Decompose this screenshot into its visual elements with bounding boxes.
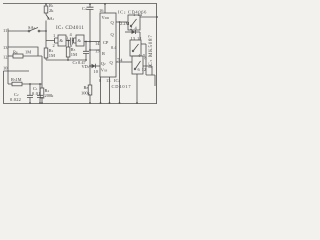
svg-text:11: 11 [3, 28, 7, 33]
svg-text:12: 12 [137, 36, 141, 41]
wire gate1 output [66, 40, 70, 42]
svg-text:2: 2 [53, 43, 55, 48]
resistor R3 1M [66, 47, 77, 61]
NAND gate IC1b [76, 35, 84, 46]
svg-text:C4: C4 [82, 6, 87, 11]
svg-text:SA2: SA2 [28, 25, 36, 30]
svg-text:VSS: VSS [101, 68, 108, 73]
IC4 CD4017 box [95, 13, 116, 77]
capacitor C2 0.022 [10, 84, 33, 104]
svg-text:0.01: 0.01 [32, 91, 41, 96]
wire pin 8 to ground [99, 77, 102, 104]
analog switch IC2a [128, 12, 158, 31]
wire oscillator bottom row [46, 59, 86, 61]
wire pin 13 to ground [106, 77, 111, 104]
svg-text:12: 12 [3, 55, 7, 60]
svg-text:1: 1 [53, 33, 55, 38]
svg-text:&: & [60, 38, 64, 43]
node pin 16 [99, 3, 106, 13]
svg-text:1M: 1M [71, 52, 77, 57]
wire pin11 row [8, 30, 28, 32]
svg-text:7 4: 7 4 [117, 58, 123, 63]
wire junction to R3 [67, 41, 69, 48]
wire gate2 output to CP [84, 41, 100, 43]
analog switch IC2b [130, 36, 146, 75]
wire left lower edge [4, 71, 30, 103]
resistor R8 100k [81, 66, 92, 104]
svg-text:1: 1 [133, 12, 135, 17]
svg-text:200k: 200k [45, 93, 55, 98]
svg-text:R8: R8 [84, 85, 89, 90]
capacitor coupling between gates [70, 38, 73, 45]
svg-text:SA1: SA1 [47, 16, 55, 21]
diode VD1 [82, 50, 101, 74]
diode VD2 [125, 30, 140, 40]
wire pin12 row [8, 55, 13, 57]
wire left pin column [7, 29, 9, 85]
analog switch IC2c [132, 56, 147, 104]
svg-text:Q2: Q2 [101, 61, 106, 66]
svg-text:100k: 100k [81, 91, 91, 96]
svg-text:0.022: 0.022 [10, 97, 21, 102]
svg-text:VD1: VD1 [82, 64, 90, 69]
wire top supply rail [3, 3, 157, 5]
svg-text:IC5 MK5087: IC5 MK5087 [149, 34, 154, 68]
capacitor C1 0.01 [32, 84, 43, 104]
resistor R4 200k [40, 88, 54, 104]
svg-text:R6: R6 [13, 50, 18, 55]
svg-text:12: 12 [142, 67, 146, 72]
wire gate2 input tie [74, 38, 77, 43]
svg-text:R51M: R51M [11, 77, 22, 82]
capacitor C3 0.47 [73, 42, 90, 66]
resistor R1 2k [44, 3, 54, 15]
switch SA1 [45, 15, 55, 49]
svg-text:CD4017: CD4017 [112, 84, 132, 89]
resistor R2 1M [44, 48, 55, 60]
wire pin13 row [8, 47, 38, 56]
svg-text:R: R [102, 51, 105, 56]
svg-text:1M: 1M [25, 50, 31, 55]
wire MR row pin 15 [90, 42, 100, 51]
wire Q output to switch 3 [116, 61, 132, 63]
NAND gate IC1a [58, 35, 66, 46]
svg-text:IC1 CD4011: IC1 CD4011 [56, 26, 84, 31]
wire switch outputs right [146, 75, 155, 86]
wire Q output top row to switch 1 [116, 21, 128, 23]
svg-text:VDD: VDD [102, 15, 110, 20]
resistor R5 1M [8, 77, 42, 86]
svg-text:0.4: 0.4 [111, 45, 117, 50]
capacitor C4 [82, 3, 94, 41]
wire bottom ground rail [3, 103, 157, 105]
wire vertical bypass to ground [119, 22, 121, 103]
wire R6 to R4 vertical [41, 56, 43, 88]
svg-text:1M: 1M [49, 53, 55, 58]
switch SA2 [28, 25, 46, 32]
svg-text:CP: CP [103, 40, 109, 45]
svg-text:2: 2 [130, 26, 132, 31]
svg-text:&: & [78, 38, 82, 43]
resistor R6 1M [13, 50, 42, 59]
wire gate1 input tie [46, 38, 58, 43]
wire right frame edge [156, 4, 158, 104]
